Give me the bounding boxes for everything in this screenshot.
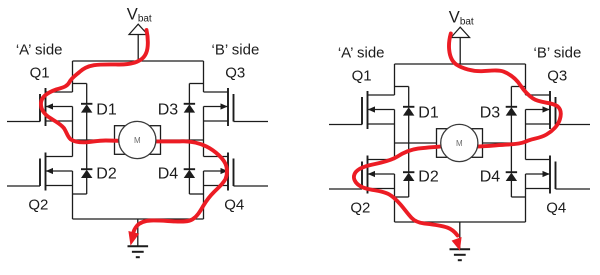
svg-text:M: M [456,139,463,148]
wire D1-D2 column middle (right) [408,115,410,172]
transistor Q1 [7,88,73,126]
svg-text:D1: D1 [418,105,439,122]
wire D1-D2 column middle (left) [86,112,88,169]
wire D1-D2 column upper (right) [408,87,410,107]
motor M circle (left) [119,121,156,158]
red current arrowhead left at ground [128,231,139,246]
ground symbol (left) [128,246,149,257]
wire motor right (left) [161,139,204,141]
motor M body (left) [115,126,161,155]
svg-text:Q3: Q3 [547,67,567,84]
wire D1 top branch (left) [73,83,87,85]
wire B-side mid column (left) [203,107,205,157]
wire Q1 drain column (right) [394,64,396,95]
wire Q4 source column (right) [525,174,527,222]
svg-text:D3: D3 [158,102,179,119]
red current path left (Vbat-Q1-motor-Q4-ground) [41,30,227,234]
power symbol V_bat triangle (right) [451,27,470,37]
wire D1-D2 column lower (right) [408,181,410,197]
wire Q4 source column (left) [203,171,205,219]
transistor Q4 [204,153,269,191]
wire top rail (right) [395,63,526,65]
svg-text:Q1: Q1 [30,64,50,81]
wire ground stub (left) [137,219,139,246]
wire motor left (right) [395,142,437,144]
wire D3-D4 column upper (right) [510,87,512,107]
transistor Q2 [7,153,73,191]
svg-text:‘B’ side: ‘B’ side [211,42,259,59]
wire Q3 drain column (right) [525,64,527,95]
wire D4 bottom branch (right) [511,196,525,198]
diode D2 [81,169,92,178]
red current arrowhead right at ground [452,237,462,251]
transistor Q4 [526,156,591,194]
wire bottom rail (right) [395,221,526,223]
svg-text:D2: D2 [418,168,439,185]
svg-text:Q2: Q2 [350,200,370,217]
svg-text:D1: D1 [96,102,117,119]
transistor Q3 [204,88,269,126]
svg-text:M: M [134,136,141,145]
wire D1 top branch (right) [395,86,409,88]
wire D3 top branch (left) [189,83,203,85]
diode D3 [506,107,517,116]
svg-text:Q4: Q4 [224,197,244,214]
svg-text:Q3: Q3 [225,64,245,81]
svg-text:Q2: Q2 [28,197,48,214]
wire D3-D4 column middle (left) [188,112,190,169]
wire D3-D4 column middle (right) [510,115,512,172]
svg-text:D4: D4 [480,168,501,185]
red current path right (Vbat-Q3-motor-Q2-ground) [354,34,561,236]
wire motor right (right) [483,142,526,144]
wire V_bat stem (left) [137,35,139,62]
svg-text:D2: D2 [96,165,117,182]
wire D2 bottom branch (right) [395,196,409,198]
wire D1-D2 column lower (left) [86,178,88,194]
diode D1 [403,107,414,116]
wire D3-D4 column lower (right) [510,181,512,197]
wire Q2 source column (right) [394,174,396,222]
svg-text:D3: D3 [480,105,501,122]
wire B-side mid column (right) [525,110,527,160]
motor M body (right) [437,129,483,158]
wire D3-D4 column upper (left) [188,84,190,104]
svg-text:Q1: Q1 [352,67,372,84]
svg-text:Q4: Q4 [546,200,566,217]
wire bottom rail (left) [73,218,204,220]
wire Q1 drain column (left) [72,61,74,92]
svg-text:‘A’ side: ‘A’ side [338,45,385,62]
wire Q3 drain column (left) [203,61,205,92]
wire D3-D4 column lower (left) [188,178,190,194]
wire V_bat stem (right) [459,38,461,65]
diode D4 [506,172,517,181]
svg-text:‘B’ side: ‘B’ side [533,45,581,62]
motor M circle (right) [441,124,478,161]
power symbol V_bat triangle (left) [129,24,148,34]
svg-text:‘A’ side: ‘A’ side [16,42,63,59]
wire D2 bottom branch (left) [73,193,87,195]
wire A-side mid column (right) [394,110,396,160]
diode D3 [184,104,195,113]
svg-text:D4: D4 [158,165,179,182]
wire Q2 source column (left) [72,171,74,219]
wire motor left (left) [73,139,115,141]
ground symbol (right) [450,249,471,260]
transistor Q2 [329,156,395,194]
wire D1-D2 column upper (left) [86,84,88,104]
wire top rail (left) [73,60,204,62]
wire ground stub (right) [459,222,461,249]
wire D3 top branch (right) [511,86,525,88]
wire A-side mid column (left) [72,107,74,157]
diode D4 [184,169,195,178]
transistor Q3 [526,91,591,129]
transistor Q1 [329,91,395,129]
diode D1 [81,104,92,113]
diode D2 [403,172,414,181]
wire D4 bottom branch (left) [189,193,203,195]
